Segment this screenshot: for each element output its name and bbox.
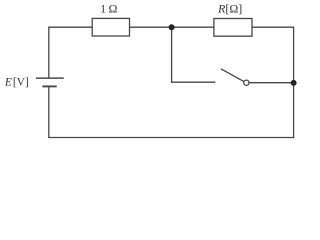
battery E positive plate (long) — [36, 77, 64, 79]
wire branch vertical (node A down to switch) — [171, 27, 173, 82]
wire right side — [293, 27, 295, 139]
wire switch left segment — [171, 81, 216, 83]
resistor 1 ohm (box) — [92, 18, 129, 36]
svg-text:E[V]: E[V] — [4, 77, 29, 89]
node A (junction dot on top wire) — [169, 24, 175, 30]
node B (junction dot on right wire) — [291, 80, 297, 86]
wire left side upper (to battery + plate) — [48, 27, 50, 79]
resistor R (box) — [214, 19, 252, 37]
wire bottom side — [48, 137, 294, 139]
svg-text:1 Ω: 1 Ω — [100, 1, 117, 15]
switch contact circle — [244, 80, 249, 85]
wire top side — [49, 26, 294, 28]
battery E negative plate (short) — [42, 85, 56, 87]
svg-text:R[Ω]: R[Ω] — [217, 1, 242, 15]
switch blade (open) — [221, 69, 244, 82]
wire left side lower (from battery - plate) — [48, 86, 50, 137]
wire switch right segment — [249, 82, 293, 84]
